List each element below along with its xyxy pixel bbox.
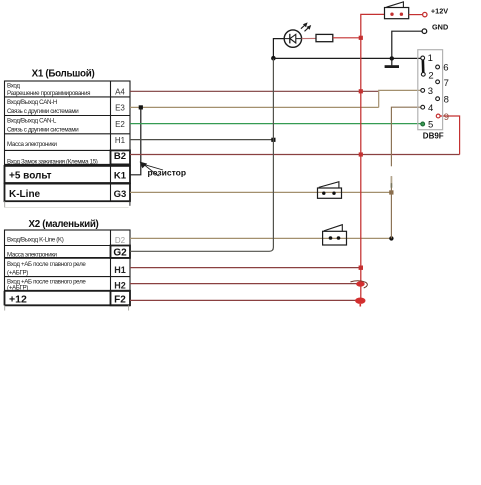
svg-text:+5 вольт: +5 вольт xyxy=(9,171,52,182)
node ground-bus junction left xyxy=(271,56,276,61)
wire B2 ignition net xyxy=(130,154,460,156)
DB9F connector body xyxy=(418,50,443,130)
svg-text:Вход/Выход K-Line (K): Вход/Выход K-Line (K) xyxy=(7,237,64,244)
svg-text:Связь с другими системами: Связь с другими системами xyxy=(7,108,79,115)
LED emission arrows xyxy=(301,22,311,31)
svg-text:DB9F: DB9F xyxy=(423,131,444,140)
DB9F pin 7 xyxy=(436,78,449,89)
node +12V to resistor junction xyxy=(359,36,363,40)
svg-text:G2: G2 xyxy=(113,248,127,259)
svg-text:(+АБГР): (+АБГР) xyxy=(7,269,28,276)
svg-text:8: 8 xyxy=(444,94,449,105)
wire resistor to +12V vertical xyxy=(333,37,361,39)
svg-text:Масса электроники: Масса электроники xyxy=(7,141,58,148)
connector X2 pin F2 label xyxy=(114,294,126,305)
svg-text:1: 1 xyxy=(428,53,433,64)
svg-text:Масса электроники: Масса электроники xyxy=(7,252,58,259)
wire ignition riser to DB9F pin 9 xyxy=(440,116,460,155)
connector X2 header label xyxy=(28,219,98,230)
svg-text:(+АБГР): (+АБГР) xyxy=(7,285,28,292)
node K-Line X2 junction xyxy=(389,236,393,240)
node +12V to X2-H1 junction xyxy=(359,266,363,270)
connector X1 +5V row label xyxy=(9,171,52,182)
svg-text:Вход: Вход xyxy=(7,83,20,90)
wire ground vertical to X2 G2 xyxy=(130,58,273,251)
DB9F pin 2 xyxy=(421,70,433,81)
node ground-bus junction right xyxy=(390,56,394,60)
node E3 resistor junction xyxy=(139,105,143,109)
DB9F pin 1 xyxy=(421,53,433,64)
svg-text:X1 (Большой): X1 (Большой) xyxy=(32,69,95,80)
connector X1 pin A4 label xyxy=(115,87,125,96)
connector X2 pin D2 label xyxy=(115,236,126,245)
DB9F pin 9 xyxy=(436,112,449,123)
wire CAN-H riser to DB9F pin 3 xyxy=(379,90,421,107)
wire ground bus to DB9F pin 1 xyxy=(273,57,421,59)
LED D1 xyxy=(284,30,301,47)
switch S1 power (+12V) xyxy=(385,2,409,19)
connector X1 header label xyxy=(32,69,95,80)
svg-text:GND: GND xyxy=(432,23,448,32)
switch S2 K-Line X1 xyxy=(318,182,342,199)
DB9F pin 8 xyxy=(436,94,449,105)
node +12V to A4 junction xyxy=(359,89,363,93)
resistor R1 pull-up (vertical lead E3 to K1) xyxy=(130,107,141,174)
svg-text:D2: D2 xyxy=(115,236,126,245)
connector X1 pin B2 label xyxy=(114,151,126,162)
connector X1 pin table frame xyxy=(5,81,131,208)
svg-text:5: 5 xyxy=(428,120,433,131)
svg-text:F2: F2 xyxy=(114,294,126,305)
connector X1 pin K1 label xyxy=(114,171,127,182)
svg-text:+12V: +12V xyxy=(431,7,448,16)
wire switch S1 to +12V terminal xyxy=(409,14,423,16)
wire H1 electronics-ground net xyxy=(130,139,273,141)
wire LED anode to resistor xyxy=(302,37,316,39)
switch S3 K-Line X2 xyxy=(323,225,347,245)
svg-text:H1: H1 xyxy=(114,265,126,275)
connector X2 +12 row label xyxy=(9,293,27,305)
node H1 ground junction xyxy=(271,138,275,142)
connector X2 pin G2 label xyxy=(113,248,127,259)
wire X2 H2 +12 net xyxy=(130,283,357,285)
svg-text:E3: E3 xyxy=(115,103,125,112)
svg-text:Связь с другими системами: Связь с другими системами xyxy=(7,127,79,134)
resistor label callout "резистор" xyxy=(140,162,186,178)
wire GND terminal drop xyxy=(392,31,422,58)
svg-text:+12: +12 xyxy=(9,293,27,305)
jumper DB9F pin1 to pin2 xyxy=(421,58,424,74)
wire G3 K-Line X1 net xyxy=(130,191,391,193)
node K-Line X1 junction xyxy=(389,190,393,194)
svg-text:A4: A4 xyxy=(115,87,125,96)
connector X2 pin H1 label xyxy=(114,265,126,275)
+12V terminal xyxy=(423,7,449,17)
svg-text:7: 7 xyxy=(444,78,449,89)
svg-text:E2: E2 xyxy=(115,120,125,129)
svg-text:3: 3 xyxy=(428,86,433,97)
wire D2 K-Line X2 net xyxy=(130,237,391,239)
connector X1 row descriptions xyxy=(7,83,98,166)
DB9F pin 3 xyxy=(421,86,433,97)
svg-text:Вход/Выход CAN-H: Вход/Выход CAN-H xyxy=(7,99,57,106)
wire +12V feed vertical xyxy=(361,14,385,300)
ground symbol xyxy=(385,58,399,66)
DB9F pin 6 xyxy=(436,63,449,74)
connector X1 pin E3 label xyxy=(115,103,125,112)
svg-text:резистор: резистор xyxy=(148,168,187,178)
svg-text:Вход +АБ после главного реле: Вход +АБ после главного реле xyxy=(7,261,86,268)
DB9F label xyxy=(423,131,444,140)
connector X1 K-Line row label xyxy=(9,189,41,200)
wire X2 F2 +12 net xyxy=(130,299,356,301)
svg-text:Разрешение программирования: Разрешение программирования xyxy=(7,90,90,97)
svg-text:K1: K1 xyxy=(114,171,127,182)
wire E3 CAN-H net xyxy=(130,106,379,108)
svg-text:4: 4 xyxy=(428,103,433,114)
svg-text:K-Line: K-Line xyxy=(9,189,41,200)
connector X1 pin H1 label xyxy=(115,136,126,145)
crimp tap X2-H2 to +12V xyxy=(351,281,368,288)
connector X2 pin H2 label xyxy=(114,280,126,290)
crimp tap X2-F2 to +12V xyxy=(355,298,365,307)
svg-text:H2: H2 xyxy=(114,280,126,290)
connector X2 row descriptions xyxy=(7,237,86,292)
connector X1 pin E2 label xyxy=(115,120,125,129)
wire X2 H1 +12 net xyxy=(130,267,361,269)
node +12V to B2 junction xyxy=(359,152,363,156)
DB9F pin 4 xyxy=(421,103,433,114)
svg-text:Вход/Выход CAN-L: Вход/Выход CAN-L xyxy=(7,118,57,125)
DB9F pin 5 xyxy=(421,120,433,131)
wire K-Line drop from DB9F pin 4 xyxy=(390,107,421,238)
svg-text:2: 2 xyxy=(428,70,433,81)
wire LED cathode to ground rail xyxy=(273,39,284,59)
svg-text:G3: G3 xyxy=(114,189,127,200)
svg-text:X2 (маленький): X2 (маленький) xyxy=(28,219,98,230)
svg-text:9: 9 xyxy=(444,112,449,123)
wire E2 CAN-L net to DB9F pin 5 xyxy=(130,123,421,125)
svg-text:B2: B2 xyxy=(114,151,126,162)
resistor R2 LED series xyxy=(316,34,333,41)
svg-text:Вход Замок зажигания (Клемма 1: Вход Замок зажигания (Клемма 15) xyxy=(7,158,98,165)
connector X1 pin G3 label xyxy=(114,189,127,200)
svg-text:6: 6 xyxy=(443,63,448,74)
svg-text:H1: H1 xyxy=(115,136,126,145)
connector X2 pin table frame xyxy=(5,230,131,311)
wire A4 programming-enable net xyxy=(130,90,378,92)
GND terminal xyxy=(422,23,448,34)
